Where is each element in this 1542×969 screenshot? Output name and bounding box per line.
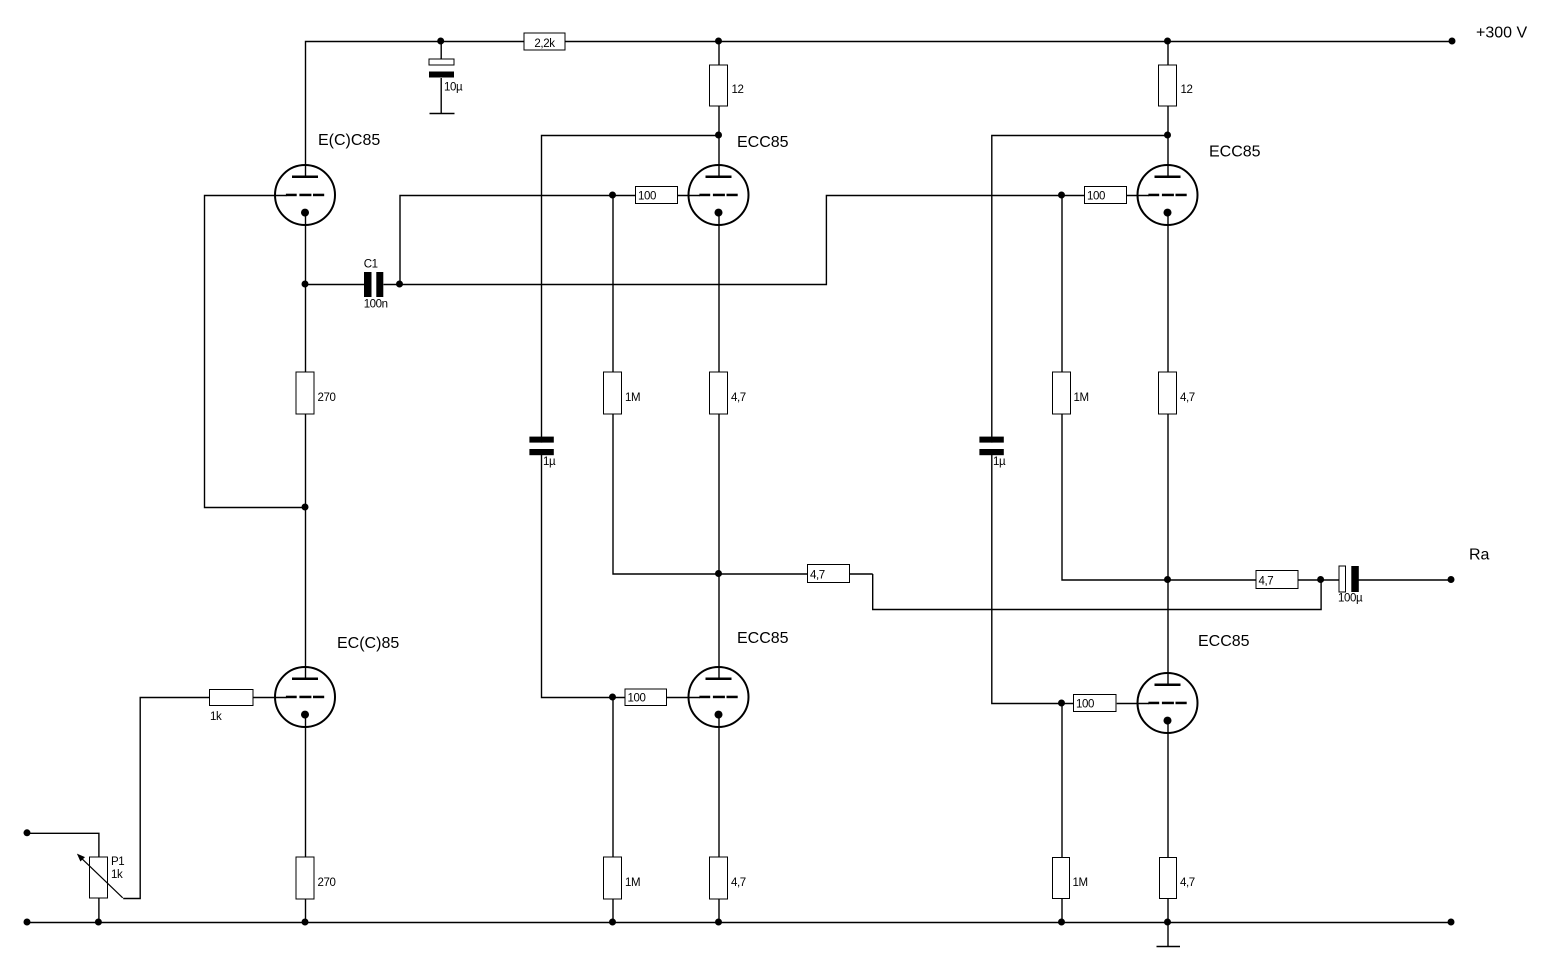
svg-text:4,7: 4,7	[1180, 877, 1195, 889]
svg-text:+300 V: +300 V	[1476, 25, 1527, 42]
svg-text:1M: 1M	[625, 392, 640, 404]
svg-text:12: 12	[1181, 84, 1193, 96]
svg-text:4,7: 4,7	[1259, 576, 1274, 588]
svg-text:EC(C)85: EC(C)85	[337, 635, 399, 652]
svg-text:ECC85: ECC85	[737, 134, 789, 151]
svg-text:1k: 1k	[210, 711, 222, 723]
svg-text:270: 270	[318, 392, 336, 404]
svg-text:12: 12	[732, 84, 744, 96]
svg-text:4,7: 4,7	[810, 570, 825, 582]
svg-text:100: 100	[638, 191, 656, 203]
svg-text:E(C)C85: E(C)C85	[318, 132, 380, 149]
svg-text:100n: 100n	[364, 299, 388, 311]
svg-text:10µ: 10µ	[444, 82, 463, 94]
svg-text:1k: 1k	[111, 869, 123, 881]
svg-text:C1: C1	[364, 259, 378, 271]
svg-text:270: 270	[318, 877, 336, 889]
svg-text:4,7: 4,7	[731, 877, 746, 889]
svg-text:1M: 1M	[1073, 877, 1088, 889]
svg-text:1M: 1M	[1074, 392, 1089, 404]
svg-text:ECC85: ECC85	[1209, 144, 1261, 161]
svg-text:ECC85: ECC85	[1198, 633, 1250, 650]
svg-text:P1: P1	[111, 856, 124, 868]
svg-text:100: 100	[1087, 191, 1105, 203]
svg-text:100µ: 100µ	[1338, 593, 1363, 605]
svg-text:100: 100	[1076, 699, 1094, 711]
svg-text:1µ: 1µ	[543, 456, 556, 468]
svg-text:1µ: 1µ	[993, 456, 1006, 468]
svg-text:ECC85: ECC85	[737, 630, 789, 647]
svg-text:4,7: 4,7	[731, 392, 746, 404]
svg-text:Ra: Ra	[1469, 547, 1490, 564]
svg-text:2,2k: 2,2k	[534, 38, 555, 50]
svg-text:1M: 1M	[625, 877, 640, 889]
svg-text:4,7: 4,7	[1180, 392, 1195, 404]
svg-text:100: 100	[628, 693, 646, 705]
